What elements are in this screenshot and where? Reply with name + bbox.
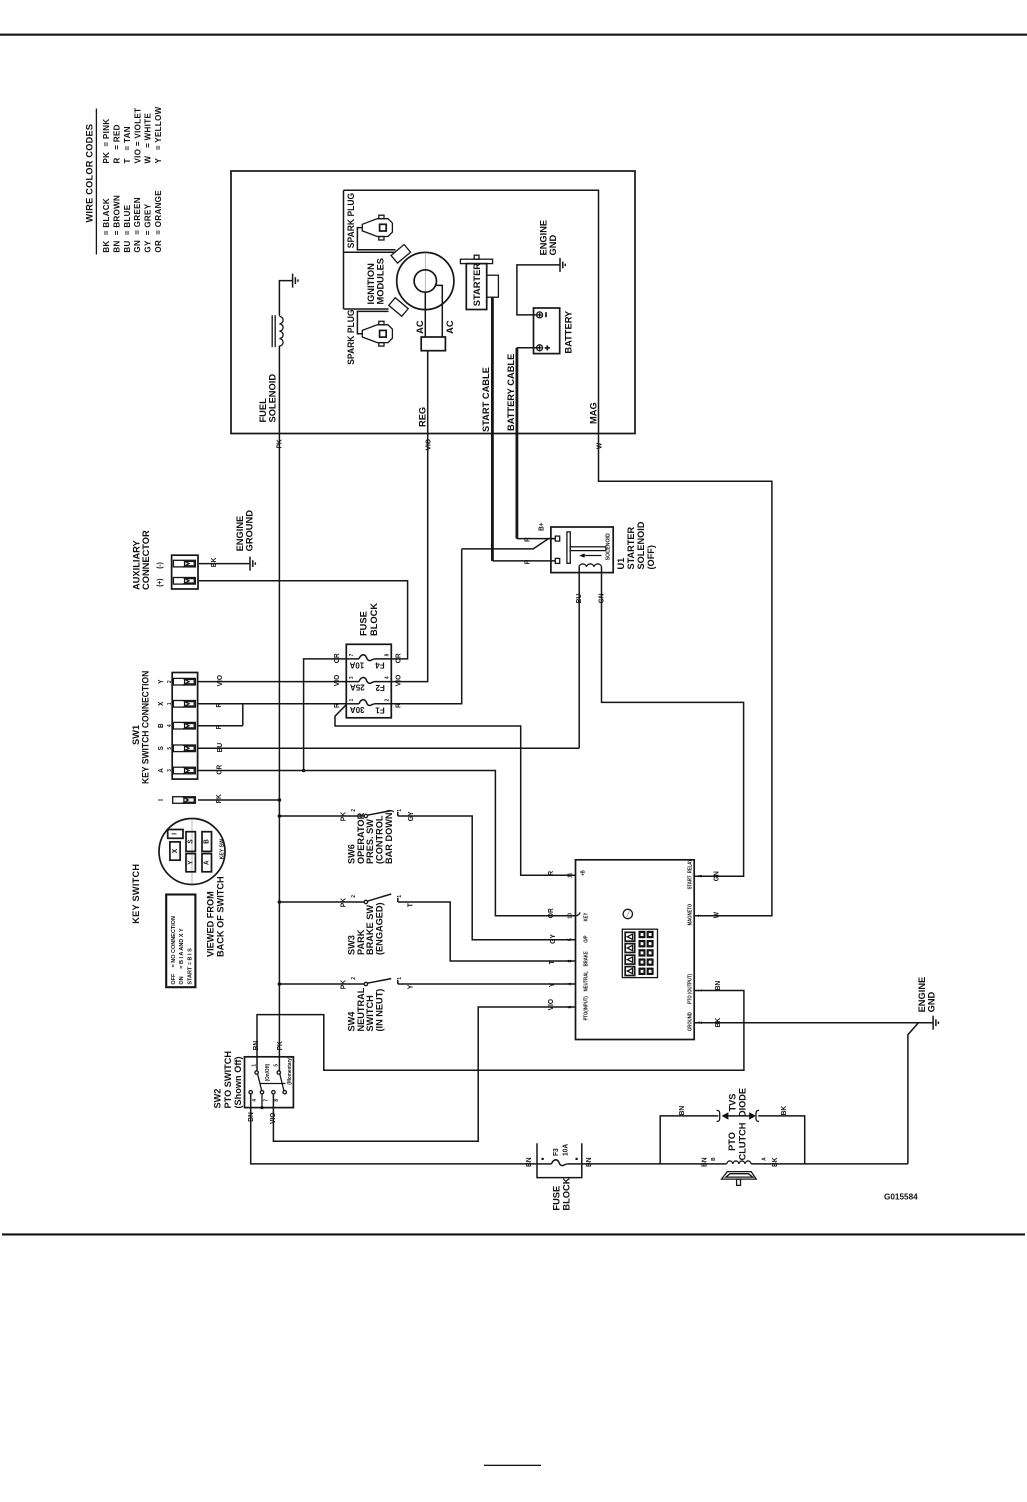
svg-text:F3: F3	[553, 1148, 560, 1156]
svg-text:VIEWED FROM: VIEWED FROM	[205, 891, 215, 957]
svg-text:PK: PK	[340, 980, 347, 989]
start cable	[491, 297, 494, 561]
svg-text:2: 2	[351, 895, 357, 898]
svg-text:OFF = NO CONNECTION: OFF = NO CONNECTION	[171, 916, 177, 985]
wire BK branch down to PTO clutch return	[908, 1023, 919, 1164]
switch SW3 park brake	[279, 901, 364, 903]
wire A OR to controller pin 10	[198, 771, 576, 916]
svg-text:(Shown Off): (Shown Off)	[233, 1056, 243, 1108]
solenoid plunger T-bar	[567, 532, 570, 563]
svg-text:R: R	[216, 703, 223, 708]
svg-text:10A: 10A	[349, 660, 364, 669]
svg-text:BK = BLACK: BK = BLACK	[102, 198, 111, 253]
svg-text:(+): (+)	[157, 578, 164, 586]
fuse F3 10A	[537, 1163, 552, 1165]
battery negative terminal	[537, 312, 543, 318]
svg-text:R: R	[524, 537, 531, 542]
svg-text:3: 3	[349, 676, 355, 679]
svg-text:Y: Y	[187, 860, 194, 865]
junction PK at I row	[278, 798, 282, 802]
battery plus sign	[546, 345, 548, 350]
svg-text:B: B	[203, 839, 210, 844]
jumper X to B	[242, 704, 244, 726]
svg-text:T: T	[549, 960, 556, 965]
svg-text:2: 2	[351, 977, 357, 980]
svg-text:MAGNETO: MAGNETO	[687, 903, 692, 925]
controller module box	[576, 860, 695, 1040]
wire AC right from flywheel	[435, 285, 443, 337]
svg-text:NEUTRAL: NEUTRAL	[583, 971, 588, 991]
key switch circle	[159, 819, 225, 885]
controller indicator circle	[623, 909, 632, 918]
wire AC left from flywheel	[424, 292, 426, 337]
svg-text:BK: BK	[781, 1106, 788, 1116]
key switch hairline	[191, 819, 193, 884]
svg-text:4: 4	[252, 1099, 258, 1102]
svg-text:BN: BN	[526, 1157, 533, 1167]
svg-text:I: I	[158, 799, 165, 801]
AC regulator box	[421, 337, 445, 351]
wire BK controller pin 2 to engine ground	[694, 1022, 933, 1024]
svg-text:VIO: VIO	[548, 998, 555, 1010]
svg-text:BN: BN	[679, 1106, 686, 1116]
wire aux plus OR to fuse F4 pin8	[198, 581, 408, 659]
svg-text:FUSE: FUSE	[359, 611, 369, 636]
battery	[534, 308, 560, 354]
svg-text:MAG: MAG	[588, 402, 598, 424]
svg-text:4: 4	[167, 724, 173, 727]
svg-text:PK: PK	[340, 812, 347, 821]
svg-text:11: 11	[567, 873, 573, 879]
svg-text:T: T	[407, 902, 414, 907]
battery positive terminal	[537, 345, 543, 351]
svg-text:BLOCK: BLOCK	[369, 603, 379, 636]
wire R bus from F1 pin1 to controller pin 11	[335, 705, 576, 876]
svg-text:(-): (-)	[157, 562, 164, 569]
svg-text:8: 8	[567, 960, 573, 963]
svg-text:(On/Off): (On/Off)	[265, 1063, 271, 1081]
svg-text:PK: PK	[216, 794, 223, 803]
svg-text:Y: Y	[549, 982, 556, 987]
svg-text:S: S	[158, 746, 165, 751]
svg-text:GROUND: GROUND	[687, 1012, 692, 1031]
fuse F1 30A row	[346, 703, 359, 705]
svg-text:BRAKE: BRAKE	[583, 951, 588, 966]
key switch terminal S	[186, 832, 195, 852]
footer short rule	[484, 1465, 541, 1466]
svg-text:5: 5	[567, 938, 573, 941]
svg-text:GND: GND	[548, 235, 558, 256]
wire PK into SW2 pin 5	[278, 1057, 280, 1071]
svg-text:AC: AC	[445, 320, 455, 334]
svg-text:WIRE COLOR CODES: WIRE COLOR CODES	[84, 124, 94, 223]
svg-text:SOLENOID: SOLENOID	[267, 374, 277, 423]
svg-text:BU: BU	[217, 743, 224, 753]
controller connector icon frame	[622, 929, 657, 977]
svg-text:X: X	[172, 848, 179, 853]
svg-text:F4: F4	[375, 661, 385, 670]
svg-text:R: R	[216, 725, 223, 730]
svg-text:ON = B I A AND X Y: ON = B I A AND X Y	[179, 928, 185, 984]
engine ground symbol (aux)	[249, 557, 251, 571]
svg-text:BN = BROWN: BN = BROWN	[113, 195, 122, 253]
key switch terminal Y	[186, 854, 195, 872]
svg-text:CLUTCH: CLUTCH	[737, 1122, 747, 1160]
svg-text:7: 7	[698, 914, 704, 917]
spark plug upper wire	[357, 228, 395, 250]
svg-text:PTO SWITCH: PTO SWITCH	[223, 1051, 233, 1109]
U1 terminal lower	[555, 558, 559, 563]
svg-text:GY: GY	[408, 811, 415, 821]
svg-text:O/P: O/P	[583, 936, 588, 943]
svg-text:4: 4	[384, 676, 390, 679]
svg-text:B: B	[711, 1157, 717, 1161]
U1 terminal upper	[555, 536, 559, 541]
svg-text:GY = GREY: GY = GREY	[144, 203, 153, 252]
svg-text:PK: PK	[277, 1041, 284, 1050]
svg-text:FUSE: FUSE	[551, 1186, 561, 1211]
svg-text:BATTERY: BATTERY	[564, 310, 574, 354]
svg-text:F2: F2	[375, 683, 385, 692]
svg-text:VIO: VIO	[334, 674, 341, 686]
wire OR from F4 pin7 to key switch A row	[304, 659, 347, 771]
controller connector icon left squares	[625, 932, 635, 941]
svg-text:B: B	[158, 723, 165, 728]
svg-text:Y = YELLOW: Y = YELLOW	[154, 106, 163, 163]
svg-text:BLOCK: BLOCK	[562, 1177, 572, 1210]
svg-text:VIO: VIO	[425, 438, 432, 450]
SW1 I terminal	[173, 797, 196, 804]
svg-text:SW2: SW2	[212, 1089, 222, 1109]
svg-text:GN: GN	[598, 593, 605, 603]
svg-text:5: 5	[273, 1064, 279, 1067]
svg-text:GN = GREEN: GN = GREEN	[133, 197, 142, 253]
svg-text:KEY SWITCH CONNECTION: KEY SWITCH CONNECTION	[140, 671, 150, 784]
svg-text:BN: BN	[253, 1041, 260, 1051]
wire B R	[198, 725, 243, 727]
svg-text:(OFF): (OFF)	[646, 545, 656, 570]
battery minus sign	[545, 312, 547, 317]
svg-text:START = B I S: START = B I S	[187, 948, 193, 985]
ignition module chip upper (tilted)	[391, 245, 410, 264]
engine ground symbol in engine box	[559, 258, 561, 272]
svg-text:Y: Y	[407, 984, 414, 989]
wire clutch A to BK return	[751, 1163, 908, 1165]
svg-text:W: W	[713, 912, 720, 919]
svg-text:8: 8	[274, 1099, 280, 1102]
svg-text:7: 7	[349, 654, 355, 657]
wire TVS branch	[660, 1116, 718, 1164]
key switch terminal I	[168, 830, 183, 839]
svg-text:10A: 10A	[562, 1144, 569, 1156]
svg-text:START_RELAY: START_RELAY	[687, 858, 692, 889]
svg-text:25A: 25A	[350, 683, 365, 692]
battery cable	[517, 347, 540, 349]
svg-text:PTO (OUTPUT): PTO (OUTPUT)	[687, 974, 692, 1004]
svg-text:CONNECTOR: CONNECTOR	[141, 530, 151, 590]
flywheel hairline	[424, 253, 426, 310]
svg-text:R: R	[524, 560, 531, 565]
svg-text:BN: BN	[701, 1157, 708, 1167]
svg-text:F1: F1	[375, 705, 385, 714]
fuse F2 25A row	[346, 681, 359, 683]
SW2 pin7 stub to case	[261, 1094, 263, 1108]
svg-text:PK: PK	[340, 898, 347, 907]
wire S BU to starter solenoid	[198, 747, 579, 749]
svg-text:(ENGAGED): (ENGAGED)	[375, 902, 385, 955]
svg-text:8: 8	[384, 654, 390, 657]
svg-text:VIO: VIO	[270, 1112, 277, 1124]
svg-text:BN: BN	[715, 981, 722, 991]
svg-text:IGNITION: IGNITION	[366, 263, 376, 305]
svg-text:TVS: TVS	[727, 1094, 737, 1112]
svg-text:(Momentary): (Momentary)	[287, 1056, 293, 1084]
svg-text:SPARK PLUG: SPARK PLUG	[345, 193, 355, 248]
key switch terminal X	[170, 842, 180, 860]
fuse block F3 box	[537, 1143, 582, 1177]
solenoid arrow	[582, 555, 602, 557]
svg-text:KEY SWITCH: KEY SWITCH	[131, 864, 141, 924]
svg-text:+B: +B	[580, 870, 585, 876]
controller connector icon right grid	[639, 931, 646, 938]
wire BN SW2 pin4 to fuse F3	[251, 1094, 537, 1164]
svg-text:2: 2	[384, 699, 390, 702]
svg-text:W: W	[596, 442, 603, 449]
ignition module chip lower (tilted)	[389, 298, 408, 317]
svg-text:GY: GY	[550, 934, 557, 944]
svg-text:B+: B+	[538, 522, 545, 531]
svg-text:AC: AC	[415, 320, 425, 334]
key switch terminal A	[202, 854, 212, 872]
SW2 inner divider	[260, 1083, 286, 1085]
svg-text:2: 2	[351, 809, 357, 812]
svg-text:1: 1	[397, 809, 403, 812]
svg-text:(IN NEUT): (IN NEUT)	[375, 989, 385, 1032]
switch SW6 operator presence	[279, 815, 364, 817]
wire I PK	[198, 799, 279, 801]
wire VIO controller pin 6 to SW2 pin 8	[273, 1007, 575, 1141]
svg-text:MODULES: MODULES	[375, 258, 385, 305]
svg-text:G015584: G015584	[884, 1193, 918, 1202]
flywheel inner	[414, 270, 436, 292]
wire R diagonal into B+ terminal	[462, 539, 556, 549]
spark plug lower	[362, 325, 392, 343]
wire battery negative to engine ground	[517, 265, 560, 315]
svg-text:SOLENOID: SOLENOID	[636, 521, 646, 569]
svg-text:STARTER: STARTER	[472, 263, 482, 306]
svg-text:30A: 30A	[350, 705, 365, 714]
wire R from F1 pin2 to B+ bus	[391, 549, 461, 704]
svg-text:KEY: KEY	[583, 912, 588, 922]
TVS diode symbol	[717, 1110, 720, 1121]
solenoid coil	[579, 564, 602, 567]
wire W magneto to controller pin 7	[599, 434, 772, 916]
wire BU from U1 coil to key switch S row	[578, 567, 580, 749]
wire MAG loop from ignition area to box edge	[344, 190, 599, 433]
key switch terminal B	[202, 832, 212, 852]
wire fuel solenoid to ground	[279, 281, 292, 316]
flywheel magneto outer	[397, 252, 454, 309]
svg-text:10: 10	[567, 913, 573, 919]
svg-text:KEY SW: KEY SW	[219, 838, 225, 859]
svg-text:4: 4	[567, 982, 573, 986]
svg-text:7: 7	[263, 1099, 269, 1102]
svg-text:5: 5	[167, 747, 173, 750]
svg-text:BU: BU	[576, 594, 583, 604]
svg-text:PTO: PTO	[727, 1132, 737, 1151]
svg-text:1: 1	[397, 895, 403, 898]
engine enclosure box	[231, 171, 635, 434]
svg-text:1: 1	[397, 977, 403, 980]
svg-text:BACK OF SWITCH: BACK OF SWITCH	[215, 876, 225, 957]
svg-text:BU = BLUE: BU = BLUE	[123, 204, 132, 252]
ignition modules box	[343, 190, 345, 309]
svg-text:U1: U1	[616, 558, 626, 570]
svg-text:SOLENOID: SOLENOID	[605, 533, 611, 560]
wire BN SW2 pin1 stub	[256, 1057, 258, 1071]
wire Y VIO to fuse F2 pin3	[198, 681, 346, 683]
svg-text:GN: GN	[713, 871, 720, 881]
svg-text:OR: OR	[216, 765, 223, 775]
wire PK from fuel solenoid down through page (junctions at I,SW6,SW3,SW4 rows)	[278, 346, 280, 1057]
wire REG VIO down to fuse F2	[391, 351, 427, 682]
svg-text:R = RED: R = RED	[113, 124, 122, 163]
svg-text:3: 3	[698, 875, 704, 878]
svg-text:2: 2	[167, 680, 173, 683]
engine ground symbol right	[932, 1016, 934, 1030]
svg-text:BATTERY CABLE: BATTERY CABLE	[506, 354, 516, 431]
svg-text:PK: PK	[276, 439, 283, 448]
svg-text:BK: BK	[772, 1157, 779, 1167]
svg-text:START CABLE: START CABLE	[481, 367, 491, 432]
wire BN F3 to PTO clutch	[582, 1163, 727, 1165]
wire aux minus BK to engine ground	[198, 563, 250, 565]
svg-text:BN: BN	[586, 1157, 593, 1167]
svg-text:VIO = VIOLET: VIO = VIOLET	[133, 108, 142, 164]
svg-text:A: A	[761, 1157, 767, 1161]
svg-text:SPARK PLUG: SPARK PLUG	[345, 309, 355, 364]
junction OR at A row	[302, 769, 306, 773]
key switch legend box	[166, 895, 195, 988]
auxiliary connector	[172, 555, 198, 589]
page bottom rule	[2, 1233, 1025, 1235]
svg-text:1: 1	[167, 702, 173, 705]
starter solenoid U1 box	[551, 527, 613, 573]
svg-text:X: X	[158, 701, 165, 706]
svg-text:VIO: VIO	[217, 674, 224, 686]
wire X R to fuse F1 pin1	[198, 703, 346, 705]
svg-text:GROUND: GROUND	[245, 510, 255, 552]
svg-text:PTO(INPUT): PTO(INPUT)	[583, 996, 588, 1021]
svg-text:T = TAN: T = TAN	[123, 126, 132, 163]
starter motor	[474, 255, 479, 259]
svg-text:STARTER: STARTER	[626, 526, 636, 569]
svg-text:Y: Y	[158, 679, 165, 684]
svg-text:I: I	[171, 833, 178, 835]
spark plug upper	[362, 219, 392, 237]
svg-text:1: 1	[349, 699, 355, 702]
svg-text:VIO: VIO	[395, 674, 402, 686]
fuse block box	[346, 644, 391, 718]
page top rule	[0, 34, 1027, 36]
PTO clutch chassis ground	[722, 1172, 757, 1180]
svg-text:W = WHITE: W = WHITE	[144, 113, 153, 164]
svg-text:BK: BK	[715, 1018, 722, 1028]
legend rule	[95, 109, 97, 255]
svg-text:BK: BK	[211, 558, 218, 568]
svg-text:BAR DOWN): BAR DOWN)	[384, 809, 394, 864]
PTO clutch coil	[727, 1161, 751, 1164]
svg-text:A: A	[158, 768, 165, 773]
svg-text:BN: BN	[248, 1112, 255, 1122]
svg-text:DIODE: DIODE	[737, 1088, 747, 1117]
svg-text:OR = ORANGE: OR = ORANGE	[154, 190, 163, 253]
svg-text:OR: OR	[395, 653, 402, 663]
svg-text:S: S	[187, 839, 194, 844]
svg-text:R: R	[548, 871, 555, 876]
svg-text:3: 3	[167, 769, 173, 772]
svg-text:A: A	[203, 860, 210, 865]
fuel solenoid coil	[271, 315, 273, 347]
SW2 PTO switch box	[245, 1057, 294, 1108]
SW1 connector box	[172, 673, 197, 780]
switch SW4 neutral	[279, 983, 364, 985]
fuel solenoid ground symbol	[292, 274, 294, 288]
wire BN controller pin 1 loop to SW2 pin 1	[257, 991, 744, 1071]
svg-text:REG: REG	[417, 407, 427, 427]
svg-text:PK = PINK: PK = PINK	[102, 119, 111, 164]
wire GN from U1 coil to controller pin 3	[602, 567, 744, 876]
spark plug lower wire	[357, 311, 388, 333]
fuse F4 10A row	[346, 658, 359, 660]
svg-text:OR: OR	[548, 908, 555, 918]
svg-text:GND: GND	[926, 991, 936, 1012]
